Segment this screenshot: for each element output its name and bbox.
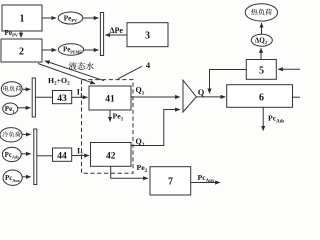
node Pe1 ellipse [3, 103, 18, 114]
svg-text:5: 5 [259, 66, 264, 77]
svg-text:43: 43 [57, 94, 67, 104]
wire box1 to PePV ellipse [42, 17, 56, 19]
box 1 [2, 5, 42, 31]
box 6 [227, 85, 293, 108]
wire box1 to box2 [20, 31, 22, 37]
node PePEME ellipse [58, 44, 83, 56]
wire triangle output Q to box6 [196, 96, 225, 98]
node dQ2 ellipse [251, 34, 272, 46]
svg-text:ΔPe: ΔPe [110, 26, 124, 35]
box 7 [150, 167, 191, 195]
electric bus bar [32, 78, 35, 117]
wire box44 to box42 I2 [72, 155, 89, 157]
leader line for label 4 [118, 66, 142, 79]
wire PePV ellipse to summing bar [83, 17, 99, 19]
svg-text:7: 7 [168, 177, 173, 188]
svg-text:2: 2 [19, 47, 24, 58]
node PcAux ellipse [3, 170, 22, 185]
box 42 [91, 143, 132, 167]
svg-text:42: 42 [106, 152, 116, 162]
node electric load ellipse [1, 82, 22, 97]
label liquid water [69, 62, 77, 70]
wire box3 to summing bar dPe [106, 34, 128, 36]
summing triangle [183, 80, 196, 112]
wire box5 feedback to Q junction [210, 70, 247, 94]
cold bus bar [34, 129, 37, 185]
node PcAds ellipse [2, 147, 21, 161]
svg-text:1: 1 [20, 14, 25, 25]
wire box41 to summing triangle Q1 [131, 96, 180, 98]
wire liquid water box4 to box2 [45, 61, 104, 81]
wire box5 to dQ2 ellipse [260, 48, 262, 59]
wire PePEME ellipse to summing bar [84, 49, 99, 51]
wire box7 output PcAux [191, 182, 220, 184]
box 3 [127, 23, 168, 47]
box 41 [89, 86, 131, 110]
svg-text:44: 44 [57, 152, 67, 162]
wire H2+O2 box2 to box4 [38, 64, 95, 84]
wire Pe1 ellipse to electric bus bar [18, 107, 31, 109]
subsystem dashed box 4 [82, 80, 134, 174]
wire box2 to PePEME ellipse [42, 49, 56, 51]
node heat load ellipse [245, 4, 277, 21]
wire cooling load to cold bus bar [22, 133, 31, 135]
node cooling load ellipse [0, 128, 22, 142]
wire PcAux ellipse to cold bus bar [22, 176, 30, 178]
summing bar electric power [100, 13, 103, 56]
box 2 [1, 39, 42, 62]
wire PcAds ellipse to cold bus bar [21, 153, 30, 155]
svg-text:6: 6 [259, 93, 264, 104]
wire dQ2 to heat load ellipse [261, 23, 263, 34]
node PePV ellipse [58, 12, 83, 24]
wire box6 PcAds output [262, 107, 264, 130]
wire box42 to summing triangle Q2 [131, 110, 180, 146]
svg-text:3: 3 [145, 31, 150, 42]
wire electric load to electric bus bar [22, 88, 30, 90]
box 43 [53, 91, 72, 104]
wire cold bus bar to box44 [37, 155, 53, 157]
wire box6 output [293, 96, 301, 98]
wire box43 to box41 I1 [72, 96, 88, 98]
svg-text:41: 41 [105, 95, 115, 105]
wire Pe1 output of box41 [109, 110, 111, 122]
box 5 [246, 60, 276, 80]
wire external input to box5 [278, 68, 300, 70]
svg-text:Q: Q [198, 87, 205, 97]
box 44 [53, 148, 72, 161]
wire box42 to box7 Pe2 [111, 166, 148, 178]
wire electric bus bar to box43 [35, 96, 52, 98]
